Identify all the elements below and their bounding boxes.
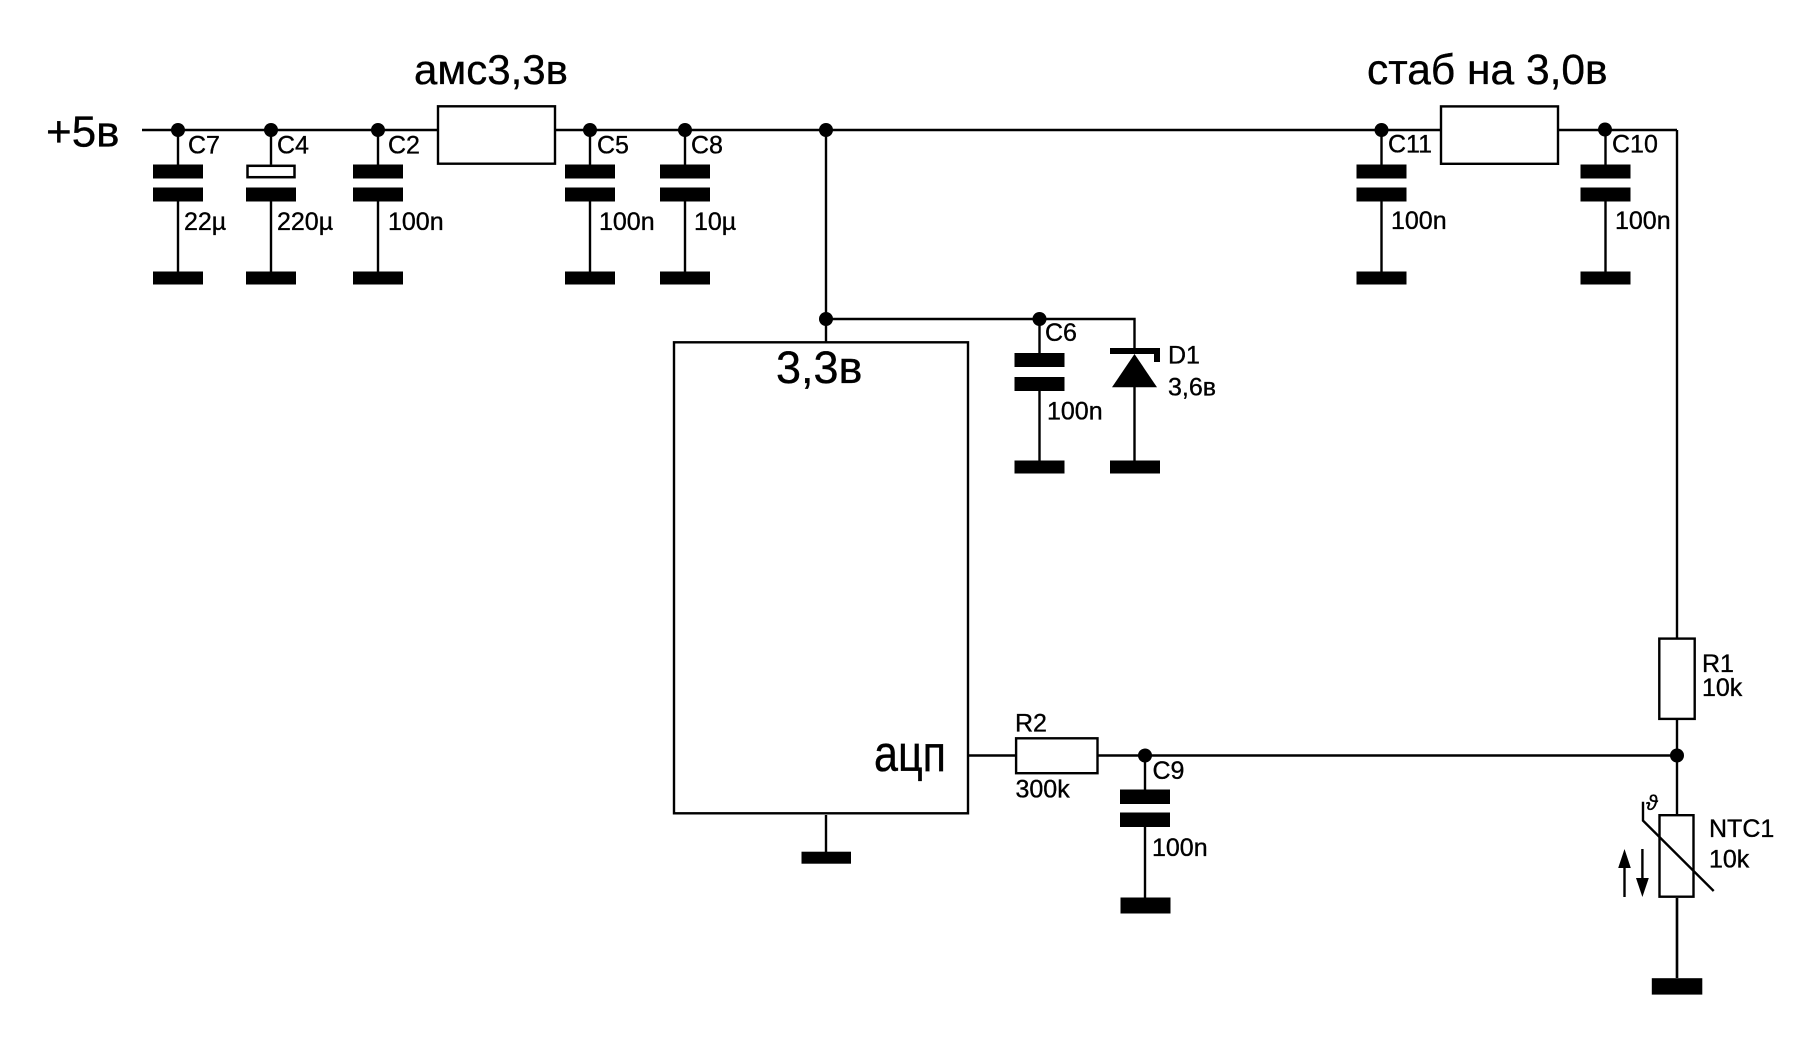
svg-text:C5: C5 (597, 132, 629, 160)
svg-text:C9: C9 (1153, 757, 1185, 785)
svg-text:C10: C10 (1612, 131, 1658, 159)
svg-text:стаб на 3,0в: стаб на 3,0в (1367, 47, 1608, 94)
svg-text:220µ: 220µ (277, 208, 333, 236)
svg-text:300k: 300k (1016, 776, 1071, 804)
svg-text:22µ: 22µ (184, 208, 226, 236)
svg-text:3,6в: 3,6в (1168, 374, 1216, 402)
svg-text:C8: C8 (691, 132, 723, 160)
svg-text:C6: C6 (1045, 319, 1077, 347)
svg-text:100n: 100n (1047, 398, 1103, 426)
svg-text:100n: 100n (1391, 207, 1447, 235)
svg-text:D1: D1 (1168, 342, 1200, 370)
svg-text:NTC1: NTC1 (1709, 815, 1774, 843)
svg-text:C2: C2 (388, 132, 420, 160)
svg-text:C11: C11 (1388, 131, 1432, 159)
svg-text:+5в: +5в (46, 108, 120, 157)
svg-text:10k: 10k (1709, 846, 1750, 874)
svg-text:C4: C4 (277, 132, 309, 160)
svg-text:ϑ: ϑ (1646, 792, 1659, 815)
svg-text:100n: 100n (1615, 207, 1671, 235)
svg-text:100n: 100n (1152, 834, 1208, 862)
svg-text:100n: 100n (388, 208, 444, 236)
svg-text:амс3,3в: амс3,3в (414, 46, 568, 93)
svg-text:100n: 100n (599, 208, 655, 236)
svg-text:3,3в: 3,3в (776, 342, 862, 393)
svg-text:C7: C7 (188, 132, 220, 160)
svg-text:10k: 10k (1702, 674, 1743, 702)
svg-text:R2: R2 (1015, 710, 1047, 738)
svg-text:10µ: 10µ (694, 208, 736, 236)
svg-text:ацп: ацп (874, 725, 946, 782)
